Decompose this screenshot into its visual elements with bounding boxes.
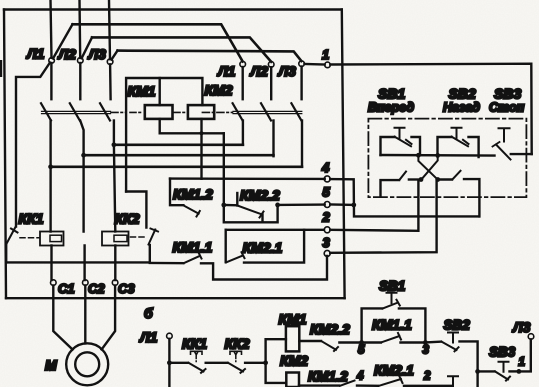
junction KM2 riser on link: [200, 131, 204, 135]
wire KK1 to KK2 chain: [6, 261, 150, 263]
diagram b: line KK1-KK2: [206, 362, 228, 364]
svg-text:КМ1.1: КМ1.1: [372, 317, 412, 333]
KK1 heater inner: [50, 235, 62, 241]
diagram b: KM1.1 contact blade: [382, 333, 402, 342]
terminal circle L3 right: [299, 61, 305, 67]
svg-text:КМ2.2: КМ2.2: [240, 187, 280, 203]
frame of power diagram box: [4, 10, 345, 299]
svg-text:2: 2: [322, 210, 331, 225]
svg-text:SВ3: SВ3: [494, 86, 521, 102]
button SB2 NC lower contact: [438, 171, 480, 217]
diagram b: wire SB3 to node1: [510, 370, 519, 372]
diagram b: L1 drop: [168, 339, 170, 387]
cross wires X: [418, 156, 437, 180]
diagram b: drop below: [476, 371, 478, 387]
svg-text:Стоп: Стоп: [489, 101, 525, 115]
thermal relay KK2 heater box: [102, 232, 129, 246]
KM1 main contacts: pole 1: [41, 63, 51, 167]
diagram b: junction L1: [167, 360, 172, 365]
diagram b: wire KM1 coil to KM2.2: [299, 340, 321, 342]
diagram b: wire to SB3: [478, 370, 495, 372]
wire circle5 right to riser cross: [330, 203, 354, 206]
knife switch blade 1: [53, 24, 73, 58]
svg-text:Назад: Назад: [443, 101, 480, 115]
svg-text:КК2: КК2: [225, 336, 250, 352]
svg-text:КК2: КК2: [115, 211, 140, 227]
wire control tap from L1: [16, 63, 50, 227]
svg-text:б: б: [144, 305, 153, 321]
svg-text:5: 5: [323, 185, 331, 200]
contact KM1.1 blade: [184, 253, 202, 264]
wire KK1 trip bottom: [5, 244, 7, 262]
wire circle3 right to SB box: [330, 181, 436, 253]
wire KM2 coil bottom riser: [200, 119, 202, 179]
svg-text:SВ3: SВ3: [489, 345, 516, 360]
svg-text:3: 3: [423, 345, 430, 357]
wire KM2.2 drop: [261, 215, 263, 223]
svg-text:Л3: Л3: [88, 46, 107, 62]
coil KM2: [188, 105, 214, 119]
KM1 coil riser: [158, 78, 160, 105]
terminal circle L1: [49, 58, 55, 64]
diagram b: terminal L1: [167, 333, 173, 339]
svg-text:SВ1: SВ1: [379, 279, 405, 294]
KM2 linkage bar: [233, 111, 302, 113]
knife switch blade 2: [82, 37, 92, 58]
junction phase3: [112, 142, 117, 147]
diagram b: wire node3 to SB2: [425, 340, 441, 343]
svg-text:КМ1: КМ1: [128, 83, 156, 99]
svg-text:SВ1: SВ1: [378, 86, 405, 102]
svg-text:КМ2.2: КМ2.2: [310, 321, 350, 337]
diagram b: wire node5 to KM1.1: [362, 341, 381, 343]
button SB1 NO contact: [381, 128, 421, 155]
svg-text:С1: С1: [58, 281, 75, 296]
diagram b: node5 dot: [359, 340, 364, 345]
svg-text:1: 1: [322, 47, 329, 62]
terminal circle 3: [324, 250, 330, 256]
wire phase2 lower continue: [80, 121, 84, 281]
terminal circle L2 right: [268, 62, 274, 68]
wire supply L3 vertical: [109, 0, 110, 59]
KM coil box top: [126, 78, 202, 192]
diagram b: KK2 contact: [228, 351, 245, 373]
contact KK2 trip blade: [149, 229, 159, 245]
wire KM1 coil bottom link: [160, 119, 224, 133]
wire node5 line left part: [224, 204, 238, 207]
svg-text:1: 1: [519, 357, 525, 369]
svg-text:5: 5: [358, 345, 365, 357]
svg-text:SВ2: SВ2: [449, 86, 476, 102]
thermal relay KK1 heater box: [40, 232, 64, 246]
junction phase2: [81, 153, 86, 158]
svg-text:4: 4: [356, 371, 364, 383]
junction KM2.2 right riser top: [275, 203, 280, 208]
crossing wire C phase1 to KM2 pole3: [51, 166, 302, 169]
wire phase3 lower continue: [114, 145, 115, 280]
contact KM2.1 blade: [226, 252, 245, 262]
junction KM1.2 right: [221, 203, 226, 208]
diagram b: SB1 blade: [383, 300, 400, 309]
svg-text:Л3: Л3: [512, 319, 531, 335]
wire supply L2 vertical: [78, 0, 81, 58]
diagram b: terminal L3: [528, 334, 534, 340]
diagram b: KM2 coil: [286, 373, 299, 387]
wire supply L1 vertical: [51, 0, 52, 58]
KM1 main contacts: pole 3: [100, 64, 114, 145]
terminal circle L2: [78, 58, 84, 64]
bus wire 2: [92, 37, 271, 61]
wire circle2 right to SB box: [330, 181, 418, 231]
motor M outer circle: [66, 343, 108, 385]
KK1 dash link: [20, 237, 39, 239]
svg-text:КМ1.1: КМ1.1: [173, 239, 213, 255]
KM2 linkage dash-dot to coil: [202, 111, 232, 113]
terminal circle 1: [325, 62, 331, 68]
terminal circle 2: [324, 227, 330, 233]
wire circle2 line left: [226, 229, 324, 231]
KM2 main contacts: pole 2: [261, 67, 274, 156]
motor leads: [53, 285, 72, 349]
diagram b: wire node1 to L3: [519, 339, 531, 371]
svg-text:КМ2: КМ2: [280, 353, 308, 369]
coil KM1: [145, 105, 173, 119]
svg-text:М: М: [45, 357, 57, 373]
diagram b: main line to KK1: [169, 362, 188, 364]
junction phase1: [48, 164, 53, 169]
dash-dot between coils: [130, 111, 186, 113]
button SB1 NC lower contact: [381, 172, 422, 197]
KM2 main contacts: pole 3: [291, 67, 302, 167]
diagram b: KM2 drop: [266, 363, 286, 383]
svg-text:4: 4: [321, 160, 330, 175]
diagram b: SB2 lower actuator: [448, 376, 458, 386]
svg-text:КМ1.2: КМ1.2: [308, 368, 348, 384]
button SB3 NC contact: [493, 128, 532, 159]
svg-text:С3: С3: [118, 281, 135, 296]
diagram b: KM1.2 blade lower: [340, 381, 355, 386]
diagram b: lower branch line: [299, 384, 452, 387]
junction X top left: [416, 153, 421, 158]
diagram b: node1 dot: [517, 369, 522, 374]
junction X bottom left: [419, 177, 424, 182]
svg-text:2: 2: [423, 371, 431, 383]
contact KK1 trip blade: [7, 228, 18, 244]
KM2 main contacts: pole 1: [233, 67, 243, 145]
wire node4 line: [170, 177, 325, 180]
diagram b: wire KM1.1 to node3: [401, 341, 426, 343]
diagram b: KM2.2 contact blade: [322, 341, 339, 351]
svg-text:КМ2: КМ2: [205, 82, 233, 98]
control station dash-dot box: [368, 119, 526, 198]
contact KM2.1 left drop: [224, 230, 226, 262]
wire terminal 1 to control station: [330, 64, 531, 154]
diagram b: wire SB2 to corner: [460, 341, 478, 371]
svg-text:КМ2.1: КМ2.1: [243, 240, 283, 256]
svg-text:Л2: Л2: [58, 46, 77, 62]
scan artifact left edge mark: [0, 60, 2, 77]
KK2 dash link: [131, 236, 145, 238]
svg-text:SВ2: SВ2: [444, 318, 471, 333]
KM1 linkage dash-dot to coil: [111, 111, 126, 113]
svg-text:КК1: КК1: [19, 211, 44, 227]
diagram b: SB1 actuator: [387, 293, 397, 303]
svg-text:Л1: Л1: [139, 329, 158, 345]
svg-text:3: 3: [323, 235, 331, 250]
KK2 heater inner: [114, 235, 127, 241]
contact KM1.2 left riser: [170, 179, 183, 206]
junction cross: [351, 203, 356, 208]
wire SB common line: [381, 154, 495, 157]
diagram b: KM1 coil: [286, 326, 299, 351]
diagram b: KM2.1 blade lower: [379, 377, 403, 386]
svg-text:Л1: Л1: [26, 46, 45, 62]
diagram b: KK1 contact: [189, 351, 206, 373]
svg-text:Л1: Л1: [217, 63, 236, 79]
wire KM1.1 right + drop to circle3: [201, 256, 327, 280]
diagram b: junction: [263, 360, 268, 365]
contact KM2.2 blade: [237, 206, 263, 218]
wire KK2 trip bottom: [149, 245, 151, 262]
diagram b: node3 dot: [423, 340, 428, 345]
diagram b: SB2 contact: [442, 333, 459, 352]
wire KM coil left down to KK2 trip: [126, 192, 146, 228]
diagram b: SB1 bridge: [362, 308, 426, 342]
contact KM1.2 blade: [183, 205, 199, 216]
contact KM2.2 left nub: [236, 193, 238, 206]
diagram b: junction: [475, 369, 480, 374]
wire KM2.1 right: [244, 230, 304, 263]
terminal circle 5: [324, 202, 330, 208]
diagram b: riser to KM1 coil: [266, 339, 286, 363]
terminal circle L3: [107, 59, 113, 65]
bus wire 3: [118, 51, 302, 61]
button SB2 NO contact: [438, 128, 479, 157]
svg-text:Вперед: Вперед: [368, 101, 414, 115]
diagram b: wire to node5: [339, 341, 361, 343]
terminal circle L1 right: [240, 61, 246, 67]
svg-text:КМ1: КМ1: [279, 311, 307, 327]
svg-text:КМ1.2: КМ1.2: [173, 186, 213, 202]
wire node5 line right part: [278, 203, 325, 206]
svg-text:С2: С2: [88, 281, 105, 296]
wire L3r to terminal 1: [304, 63, 324, 66]
bus wire 1: [73, 24, 243, 61]
svg-text:Л2: Л2: [250, 63, 269, 79]
crossing wire B phase2 to KM2 pole2: [84, 154, 274, 157]
terminal circles C1 C2 C3: [51, 280, 57, 286]
svg-text:КМ2.1: КМ2.1: [374, 362, 414, 378]
svg-text:КК1: КК1: [182, 336, 207, 352]
crossing wire A phase3 to KM2 pole1: [114, 144, 243, 147]
knife switch blade 3: [112, 51, 118, 60]
wire KM1.1 row left: [150, 262, 184, 265]
wire link corner down to node5 link: [224, 133, 278, 222]
wire circle4 right to riser: [330, 179, 479, 216]
KM1 linkage bar: [42, 111, 111, 113]
terminal circle 4: [324, 176, 330, 182]
junction X bottom right: [435, 177, 440, 182]
diagram b: SB3 contact: [495, 362, 510, 381]
motor M inner circle: [75, 352, 99, 376]
svg-text:Л3: Л3: [278, 63, 297, 79]
KM1 main contacts: pole 2: [70, 63, 81, 121]
wire phase1 lower continue: [49, 167, 52, 280]
diagram b: line KK2 to junction: [245, 362, 266, 364]
junction X top right: [435, 153, 440, 158]
